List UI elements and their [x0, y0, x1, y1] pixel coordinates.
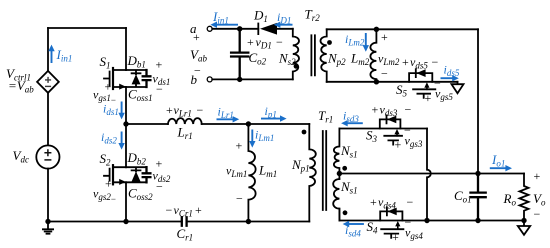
svg-text:+: + [195, 203, 202, 217]
svg-text:+: + [392, 230, 399, 244]
svg-text:−: − [381, 67, 388, 81]
svg-text:vCr1: vCr1 [174, 203, 193, 219]
svg-text:Ns2: Ns2 [278, 51, 296, 68]
wire node to Lr1 [126, 123, 168, 125]
wire top-left rail [48, 27, 126, 29]
svg-text:−: − [156, 82, 163, 96]
port a terminal [207, 26, 212, 31]
svg-text:Coss2: Coss2 [128, 186, 153, 203]
svg-text:−: − [432, 55, 439, 69]
svg-text:iLm2: iLm2 [345, 32, 365, 48]
transistor S5 body [409, 69, 435, 98]
transistor S2 source arrow [119, 179, 126, 185]
svg-text:vds5: vds5 [410, 55, 428, 71]
wire Ns1 top to S3 [339, 128, 379, 130]
wire port b to Ns2 bottom [212, 78, 293, 80]
wire node A to primary top [248, 123, 309, 125]
wire center tap rail [339, 173, 524, 175]
arrow ids5 [441, 77, 453, 79]
diode S5 body diode [416, 69, 425, 77]
wire D1 to Ns2 top [277, 28, 293, 30]
resistor Ro [520, 174, 529, 221]
svg-text:S5: S5 [396, 82, 408, 99]
svg-text:vds4: vds4 [378, 195, 396, 211]
wire left column lower [47, 169, 49, 222]
wire S4 drain to output bottom rail [402, 220, 524, 222]
arrow isd4 [349, 223, 364, 225]
svg-text:−: − [197, 103, 204, 117]
svg-text:−: − [236, 192, 243, 206]
svg-text:+: + [395, 138, 402, 152]
wire right column down [477, 29, 479, 173]
svg-text:−: − [156, 180, 163, 194]
sign minus Vdc [44, 159, 51, 161]
transformer Tr1 secondary winding Ns1 lower [333, 179, 339, 221]
diode S3 body diode [387, 116, 396, 124]
transformer Tr2 core [311, 35, 315, 75]
wire S1 drain [125, 28, 127, 70]
svg-text:Coss1: Coss1 [128, 87, 153, 104]
port b terminal [207, 77, 212, 82]
wire S5 drain to ground [432, 81, 457, 83]
svg-text:Ro: Ro [503, 191, 517, 208]
wire port a to Co2 [212, 28, 258, 30]
wire bottom-left rail to Cr1 [48, 221, 182, 223]
svg-text:ids5: ids5 [444, 63, 460, 79]
svg-text:iD1: iD1 [277, 10, 291, 26]
wire Lr1 to node A [202, 123, 249, 125]
inductor Lm1 [248, 124, 255, 222]
polarity dots [294, 40, 348, 215]
svg-text:Np2: Np2 [327, 51, 346, 68]
svg-text:Co1: Co1 [454, 188, 472, 205]
transistor S2 body [104, 165, 126, 184]
source Vctrl1 diamond [37, 71, 59, 93]
svg-text:+: + [193, 30, 200, 44]
wire S1 source to node [125, 87, 127, 124]
svg-text:Lm1: Lm1 [258, 163, 277, 180]
svg-text:Iin1: Iin1 [56, 47, 73, 64]
svg-text:S3: S3 [366, 128, 378, 145]
diode Db1 [126, 70, 147, 87]
svg-text:vLm2: vLm2 [378, 52, 400, 68]
svg-text:vD1: vD1 [256, 35, 272, 51]
svg-text:Vo: Vo [533, 191, 546, 208]
svg-text:S4: S4 [367, 219, 379, 236]
arrow iD1 [280, 24, 293, 26]
svg-text:−: − [407, 195, 414, 209]
diode D1 [257, 24, 259, 35]
svg-text:vgs3: vgs3 [405, 134, 423, 150]
transformer Tr2 winding Ns2 [293, 29, 299, 80]
svg-text:Np1: Np1 [291, 157, 310, 174]
arrow ids1 [121, 102, 123, 114]
svg-text:isd3: isd3 [343, 109, 359, 125]
svg-text:S2: S2 [100, 151, 112, 168]
ground at S5 [452, 82, 464, 93]
transistor S1 source arrow [119, 84, 126, 90]
svg-text:+: + [372, 103, 379, 117]
svg-text:iLm1: iLm1 [255, 128, 274, 144]
arrow Io1 [490, 167, 506, 169]
svg-text:S1: S1 [100, 54, 111, 71]
wire Tr2 top rail [327, 28, 478, 30]
arrow ip1 [261, 118, 281, 120]
wire left column upper [47, 28, 49, 71]
transistor S3 body [380, 115, 402, 144]
svg-text:iLr1: iLr1 [218, 105, 234, 121]
svg-text:+: + [534, 169, 541, 183]
ground at Vdc [42, 222, 54, 234]
svg-text:isd4: isd4 [345, 223, 361, 239]
svg-text:Db2: Db2 [127, 150, 147, 167]
svg-text:+: + [105, 177, 112, 191]
svg-text:Vab: Vab [190, 47, 207, 64]
svg-text:+: + [105, 80, 112, 94]
svg-text:Lm2: Lm2 [350, 51, 370, 68]
svg-text:ip1: ip1 [265, 104, 277, 120]
ground at output [518, 221, 530, 235]
svg-text:+: + [370, 195, 377, 209]
inductor Lr1 [168, 118, 202, 124]
sign minus Vctrl1 [45, 85, 51, 87]
transistor S4 channel arrow [397, 227, 399, 230]
transistor S5 channel arrow [426, 87, 428, 90]
capacitor Coss2 [143, 167, 151, 182]
arrow Iin1 port a [216, 24, 238, 26]
transformer Tr1 primary winding Np1 [309, 124, 316, 222]
svg-text:Vdc: Vdc [13, 148, 29, 165]
svg-text:−: − [534, 207, 541, 221]
arrow iLm2 [365, 33, 367, 46]
sign plus Vctrl1 [45, 77, 51, 83]
wire node to S2 drain [125, 124, 127, 167]
svg-text:−: − [276, 35, 283, 49]
svg-text:−: − [405, 103, 412, 117]
svg-text:+: + [236, 139, 243, 153]
wire Tr2 bottom rail to S5 [327, 81, 409, 83]
transformer Tr1 core [323, 131, 326, 210]
svg-text:vLm1: vLm1 [226, 164, 247, 180]
svg-text:+: + [402, 55, 409, 69]
capacitor Co2 [231, 29, 248, 80]
transistor S1 body [104, 68, 126, 89]
diode S4 body diode [387, 208, 396, 216]
capacitor Co1 [471, 174, 486, 221]
source Vdc circle [36, 145, 59, 168]
wire Cr1 to primary bottom [187, 221, 310, 223]
wire Ns1 bottom to S4 [339, 209, 380, 221]
arrow isd3 [347, 122, 363, 124]
arrow ids2 [121, 132, 123, 144]
svg-text:Tr1: Tr1 [318, 108, 333, 125]
svg-text:Co2: Co2 [249, 50, 267, 67]
svg-text:+: + [247, 35, 254, 49]
wire left column middle [47, 93, 49, 146]
svg-text:vgs5: vgs5 [435, 87, 453, 103]
svg-text:Ns1: Ns1 [340, 143, 358, 160]
sign plus Vdc [44, 149, 51, 156]
wire S3 drain to vertical drop [400, 128, 427, 130]
svg-text:+: + [425, 91, 432, 105]
svg-text:−: − [166, 203, 173, 217]
svg-text:Db1: Db1 [127, 53, 146, 70]
svg-text:D1: D1 [253, 8, 268, 25]
capacitor Cr1 plates [182, 217, 187, 225]
svg-text:Ns1: Ns1 [340, 179, 358, 196]
transformer Tr1 secondary winding Ns1 upper [334, 129, 340, 180]
svg-text:vgs4: vgs4 [405, 226, 423, 242]
svg-text:b: b [191, 72, 198, 87]
arrow Iin1 left [51, 51, 53, 64]
inductor Lm2 [370, 29, 376, 82]
transistor S3 channel arrow [396, 134, 398, 136]
wire vertical drop with hop over center tap rail [427, 129, 431, 221]
capacitor Coss1 [143, 70, 151, 87]
svg-text:ids2: ids2 [101, 130, 117, 146]
diode Db2 [126, 167, 147, 182]
svg-text:Lr1: Lr1 [177, 125, 193, 142]
svg-text:vLr1: vLr1 [174, 103, 192, 119]
svg-text:+: + [381, 30, 388, 44]
svg-text:vds3: vds3 [380, 103, 398, 119]
arrow iLr1 [217, 118, 234, 120]
svg-text:+: + [166, 103, 173, 117]
transformer Tr2 winding Np2 [320, 29, 326, 82]
svg-text:Io1: Io1 [491, 152, 505, 169]
svg-text:Cr1: Cr1 [177, 226, 194, 243]
svg-text:Iin1: Iin1 [212, 9, 229, 26]
wire S2 source to bottom rail [125, 182, 127, 221]
svg-text:Tr2: Tr2 [305, 7, 321, 24]
arrow iLm1 [251, 130, 253, 142]
transistor S4 body [380, 207, 403, 237]
svg-text:+: + [156, 58, 163, 72]
